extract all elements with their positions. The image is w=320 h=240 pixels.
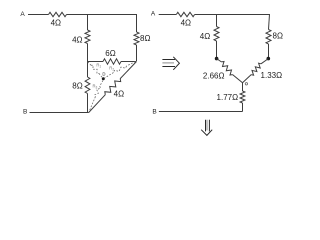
dashed resistor R1 (TL to D) bbox=[88, 62, 103, 78]
svg-text:1.33Ω: 1.33Ω bbox=[261, 71, 283, 80]
svg-text:A: A bbox=[20, 11, 25, 18]
label 4ohm (left branch) bbox=[72, 36, 82, 45]
svg-text:8Ω: 8Ω bbox=[72, 81, 82, 90]
wire to left dot bbox=[216, 41, 218, 58]
svg-text:8Ω: 8Ω bbox=[140, 34, 150, 43]
resistor 4ohm series (left circuit top) bbox=[49, 12, 67, 16]
label 1.33ohm bbox=[261, 71, 283, 80]
resistor 8ohm (Y right branch) bbox=[266, 30, 271, 45]
label 4ohm (series) bbox=[51, 19, 61, 28]
wire top (right circuit) bbox=[195, 14, 270, 16]
label 8ohm (Y right) bbox=[273, 31, 283, 40]
resistor 6ohm (delta top) bbox=[103, 59, 121, 64]
node D center dot bbox=[102, 77, 105, 80]
resistor 1.33ohm (diagonal) bbox=[243, 59, 269, 83]
junction dot left bbox=[215, 57, 219, 61]
wire to right dot bbox=[268, 44, 270, 58]
svg-text:8Ω: 8Ω bbox=[273, 31, 283, 40]
label 4ohm (right series) bbox=[181, 18, 191, 27]
wire delta top right segment bbox=[121, 61, 137, 63]
svg-text:4Ω: 4Ω bbox=[200, 32, 210, 41]
label 4ohm (delta diagonal) bbox=[114, 89, 124, 98]
label 6ohm bbox=[105, 49, 115, 58]
label R2 bbox=[109, 65, 114, 71]
wire A to R 4ohm bbox=[28, 14, 49, 16]
node A (right circuit) bbox=[151, 11, 156, 18]
resistor 4ohm series (right circuit) bbox=[176, 12, 194, 16]
svg-text:4Ω: 4Ω bbox=[51, 19, 61, 28]
wire 4ohm branch to delta TL bbox=[87, 44, 89, 62]
svg-text:6Ω: 6Ω bbox=[105, 49, 115, 58]
label 8ohm (delta left) bbox=[72, 81, 82, 90]
label R1 bbox=[96, 63, 101, 69]
svg-text:1.77Ω: 1.77Ω bbox=[217, 93, 239, 102]
junction at top of 4ohm branch bbox=[87, 14, 89, 30]
resistor 4ohm (delta right diagonal) bbox=[89, 62, 137, 113]
wire right branch down bbox=[136, 14, 138, 32]
svg-text:4Ω: 4Ω bbox=[181, 18, 191, 27]
wire top to corner bbox=[67, 14, 137, 16]
label 4ohm (Y left) bbox=[200, 32, 210, 41]
resistor 4ohm vertical (left branch) bbox=[85, 30, 90, 44]
node B (left circuit) bbox=[23, 109, 27, 116]
wire B (right circuit) bbox=[159, 111, 243, 113]
wire delta top left segment bbox=[88, 61, 104, 63]
svg-text:B: B bbox=[152, 109, 156, 116]
svg-text:D: D bbox=[102, 71, 105, 76]
resistor 8ohm (delta left side) bbox=[85, 62, 90, 113]
dashed resistor R3 (bottom to D) bbox=[89, 81, 103, 112]
junction left branch (right circuit) bbox=[216, 14, 218, 27]
node marker circle at Y center bbox=[245, 83, 247, 85]
implies arrow (down) bbox=[201, 120, 212, 136]
wire right branch (right circuit) bbox=[269, 14, 270, 30]
svg-text:4Ω: 4Ω bbox=[72, 36, 82, 45]
label 2.66ohm bbox=[203, 71, 225, 80]
label 1.77ohm bbox=[217, 93, 239, 102]
svg-text:4Ω: 4Ω bbox=[114, 89, 124, 98]
label R3 bbox=[92, 83, 97, 89]
implies arrow (right) bbox=[162, 57, 179, 70]
resistor 1.77ohm (vertical) bbox=[240, 83, 245, 112]
label D bbox=[102, 71, 105, 76]
node A (left circuit) bbox=[20, 11, 25, 18]
label 8ohm (right branch) bbox=[140, 34, 150, 43]
resistor 8ohm vertical (right branch) bbox=[134, 32, 139, 45]
wire B (left circuit) bbox=[30, 112, 89, 114]
junction dot right bbox=[267, 57, 271, 61]
svg-text:A: A bbox=[151, 11, 156, 18]
wire A to R 4ohm (right circuit) bbox=[159, 14, 177, 16]
svg-text:2.66Ω: 2.66Ω bbox=[203, 71, 225, 80]
node B (right circuit) bbox=[152, 109, 156, 116]
resistor 4ohm (Y left branch) bbox=[214, 27, 219, 42]
svg-text:B: B bbox=[23, 109, 27, 116]
dashed resistor R2 (TR to D) bbox=[105, 62, 136, 78]
wire 8ohm branch to delta TR bbox=[136, 45, 138, 61]
resistor 2.66ohm (diagonal) bbox=[217, 59, 243, 83]
